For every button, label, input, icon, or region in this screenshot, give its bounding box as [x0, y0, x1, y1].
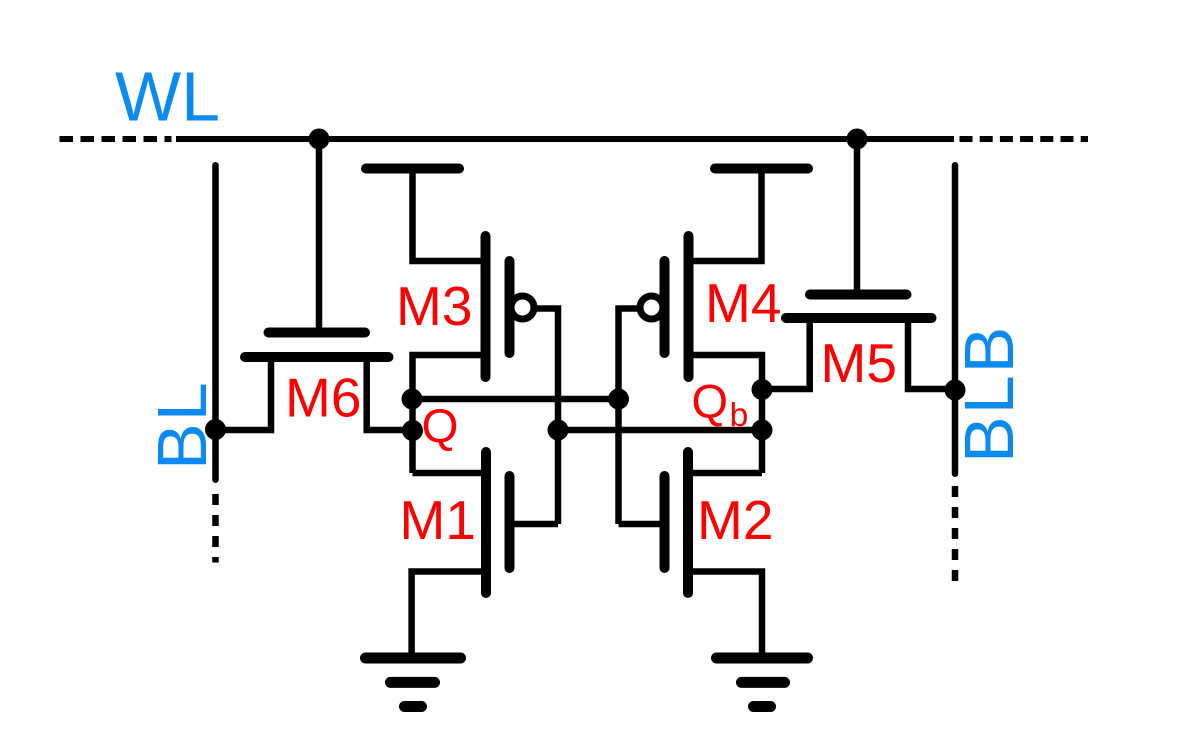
wire M3 source to VDD [413, 169, 486, 262]
junction BLB-M5 source [945, 380, 966, 401]
transistor M6 (NMOS access, left) [216, 139, 413, 430]
M5 gate bar [810, 290, 907, 300]
transistor M4 (PMOS, right pull-up) [619, 169, 809, 525]
wire WL solid [176, 136, 954, 142]
junction M3gate-lower line [548, 420, 569, 441]
node Qb junction upper [752, 379, 773, 400]
M4 channel bar [684, 236, 694, 377]
M3 gate bar [505, 261, 515, 353]
M3 channel bar [481, 236, 491, 377]
net BL line dashed [212, 494, 219, 563]
wire M5 source to BLB [908, 318, 955, 389]
svg-text:M6: M6 [285, 367, 361, 429]
wire M6 source to BL [216, 357, 272, 430]
svg-text:WL: WL [115, 58, 220, 136]
M3 gate bubble [511, 296, 534, 319]
svg-text:Qb: Qb [692, 375, 749, 435]
svg-text:M4: M4 [705, 272, 781, 334]
wire M2 source to ground [688, 572, 762, 659]
wire M4 source to VDD [689, 169, 762, 262]
wire M2 drain [688, 470, 762, 477]
wire M1 gate [512, 521, 558, 528]
wire M3 drain to Q [413, 355, 486, 473]
junction M4gate-upper line [608, 389, 629, 410]
ground right [717, 658, 808, 707]
M1 gate bar [505, 476, 515, 568]
net BL line solid [212, 165, 219, 479]
net BLB line solid [952, 165, 959, 473]
junction WL-M6 gate [309, 129, 330, 150]
M2 channel bar [683, 452, 693, 593]
wire cross-couple upper (Q to M4 gate) [412, 396, 619, 403]
M1 channel bar [481, 452, 491, 593]
wire M6 drain to Q [367, 357, 412, 430]
transistor M2 (NMOS, right pull-down) [619, 452, 763, 658]
svg-text:M2: M2 [697, 489, 773, 551]
svg-text:M5: M5 [821, 332, 897, 394]
wire M3 gate to Qb cross [536, 309, 558, 525]
node Q junction upper [402, 389, 423, 410]
junction WL-M5 gate [847, 129, 868, 150]
svg-text:Q: Q [422, 400, 459, 453]
svg-text:M1: M1 [400, 489, 476, 551]
wire WL dashed left [60, 136, 172, 142]
M2 gate bar [660, 476, 670, 568]
junction BL-M6 source [205, 419, 226, 440]
wire M4 drain to Qb [689, 355, 763, 473]
M4 gate bubble [640, 296, 663, 319]
transistor M3 (PMOS, left pull-up) [366, 169, 558, 525]
wire M1 drain [413, 470, 487, 477]
wire M2 gate [619, 521, 663, 528]
transistor M5 (NMOS access, right) [762, 139, 955, 389]
M4 gate bar [660, 261, 670, 353]
wire M6 gate from WL [316, 139, 323, 328]
M6 channel bar [245, 352, 389, 362]
M4 VDD bar [715, 164, 808, 174]
M3 VDD bar [366, 164, 459, 174]
wire cross-couple lower (Qb to M3 gate) [558, 427, 762, 434]
wire M4 gate to Q cross [619, 309, 639, 525]
transistor M1 (NMOS, left pull-down) [412, 452, 558, 658]
M5 channel bar [786, 313, 932, 323]
svg-text:M3: M3 [396, 275, 472, 337]
wire M1 source to ground [412, 572, 486, 659]
wire M5 gate from WL [854, 139, 861, 290]
wire M5 drain to Qb [762, 318, 810, 389]
node Q junction lower [402, 420, 423, 441]
ground left [366, 658, 461, 707]
node Qb junction lower [752, 420, 773, 441]
M6 gate bar [269, 328, 366, 338]
wire WL dashed right [960, 136, 1089, 142]
net BLB line dashed [952, 486, 959, 582]
